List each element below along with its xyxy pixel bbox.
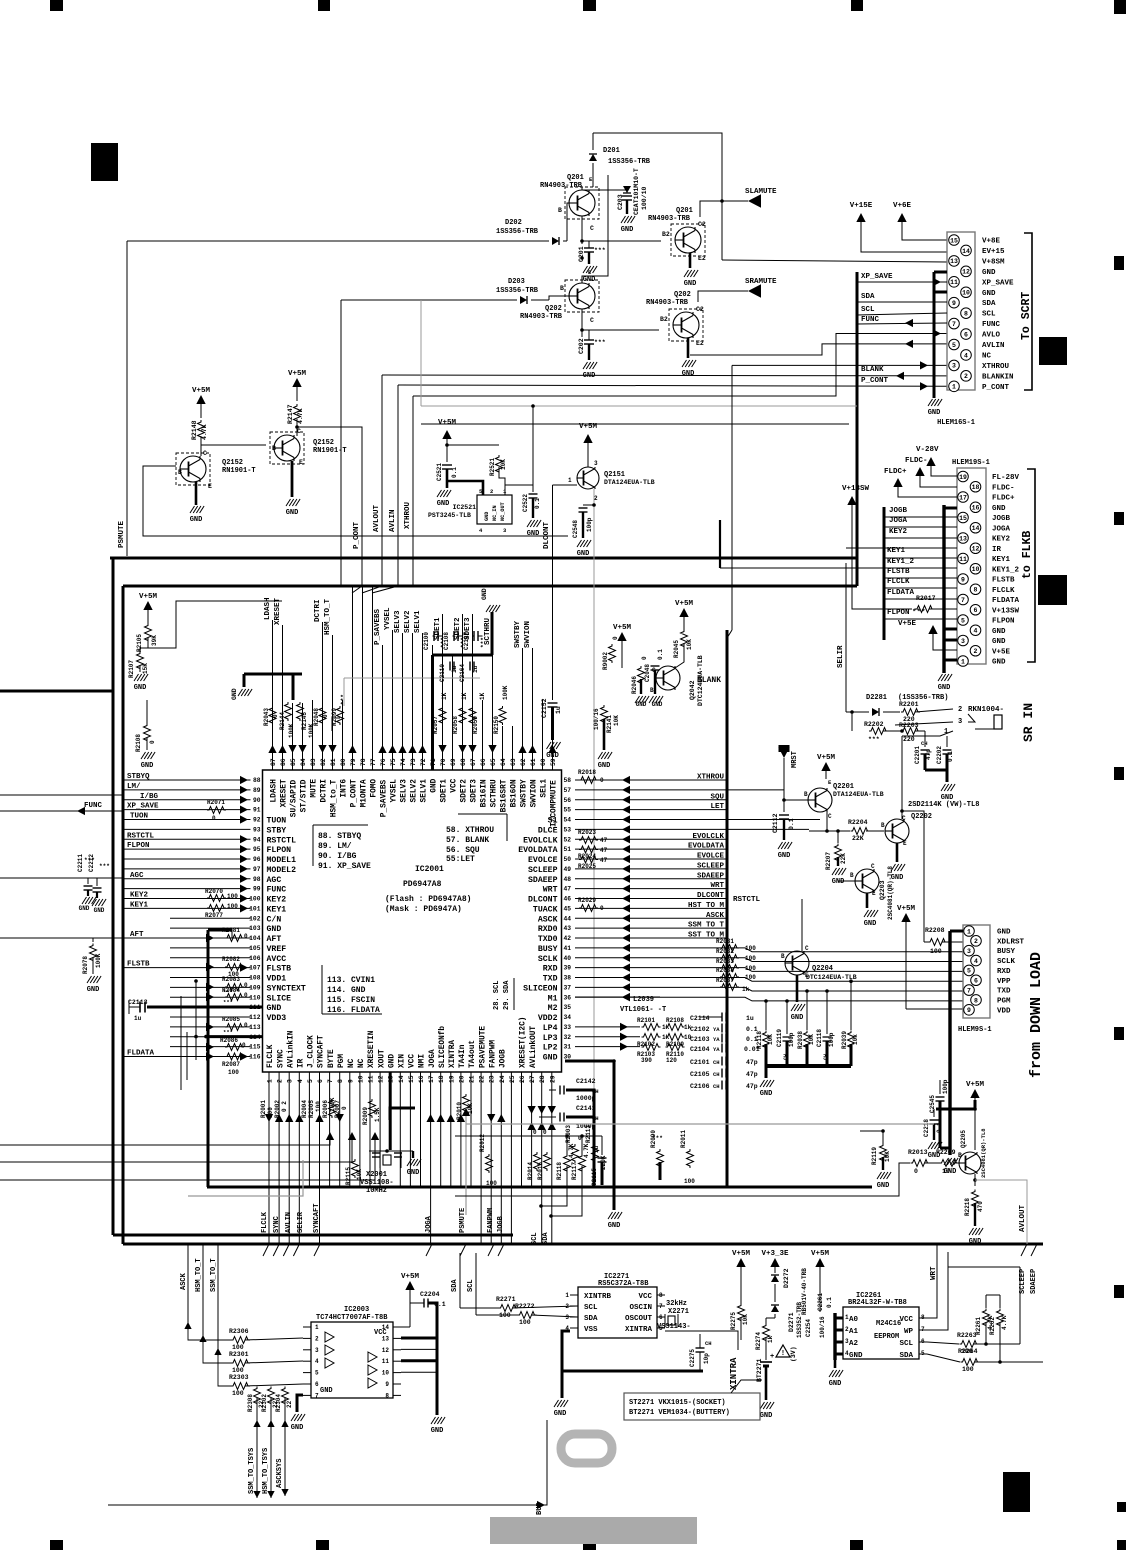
svg-text:KEY1: KEY1 bbox=[887, 547, 906, 555]
svg-text:13: 13 bbox=[959, 535, 967, 542]
svg-text:JOGA: JOGA bbox=[992, 525, 1011, 533]
transistor Q201 RN4903-TRB upper-left bbox=[569, 190, 595, 216]
wire bottom-left entries bbox=[0, 1136, 330, 1145]
svg-text:9: 9 bbox=[967, 1007, 971, 1014]
svg-text:C2164: C2164 bbox=[459, 664, 466, 682]
svg-text:DCTRI: DCTRI bbox=[314, 599, 322, 622]
svg-text:GND: GND bbox=[997, 929, 1011, 937]
wire pin 77 bbox=[372, 586, 374, 770]
svg-text:C: C bbox=[203, 450, 207, 457]
wire gray horizontal mid bbox=[466, 1123, 934, 1125]
svg-text:10K: 10K bbox=[742, 1314, 749, 1325]
wire main box left bbox=[122, 586, 125, 1244]
resistor R2108 0 bbox=[144, 724, 151, 743]
svg-text:C2105: C2105 bbox=[690, 1071, 710, 1078]
svg-text:4: 4 bbox=[974, 628, 978, 635]
svg-text:7: 7 bbox=[967, 987, 971, 994]
svg-text:V+6E: V+6E bbox=[893, 202, 912, 210]
svg-text:95: 95 bbox=[253, 846, 261, 853]
svg-text:R2150: R2150 bbox=[493, 716, 500, 734]
svg-text:RB501V-40-TRB: RB501V-40-TRB bbox=[801, 1268, 808, 1315]
svg-text:31: 31 bbox=[564, 1044, 572, 1051]
wire D203 vertical bbox=[340, 300, 342, 586]
ground IC2003 right bbox=[431, 1417, 436, 1424]
svg-text:55:LET: 55:LET bbox=[446, 855, 475, 864]
wire Q2205 emitter bbox=[974, 1174, 976, 1186]
resistor R2099 *** bbox=[337, 706, 344, 725]
svg-text:1: 1 bbox=[845, 1314, 849, 1321]
svg-text:98: 98 bbox=[253, 876, 261, 883]
svg-text:4: 4 bbox=[974, 958, 978, 965]
svg-text:0: 0 bbox=[244, 982, 248, 989]
net AVLOUT bundle bbox=[382, 374, 947, 377]
svg-text:FUNC: FUNC bbox=[84, 802, 103, 810]
ground Q201-2 emitter bbox=[689, 253, 692, 268]
svg-text:0.1: 0.1 bbox=[826, 1297, 833, 1308]
svg-text:GND: GND bbox=[94, 907, 105, 914]
svg-text:116: 116 bbox=[249, 1054, 261, 1061]
svg-text:***: *** bbox=[594, 247, 606, 254]
svg-text:99: 99 bbox=[253, 886, 261, 893]
svg-text:BS16ON: BS16ON bbox=[511, 779, 519, 807]
resistor R2207 22K bbox=[835, 844, 842, 863]
wire XTHROU to pin3 bbox=[732, 364, 947, 366]
svg-text:68: 68 bbox=[460, 758, 467, 766]
ground IC2003 left bbox=[297, 1395, 303, 1412]
svg-text:GND: GND bbox=[621, 226, 634, 234]
resistor R2039 10k filter bbox=[850, 981, 852, 1030]
resistor R2011 100 bbox=[687, 1149, 694, 1168]
svg-text:103: 103 bbox=[249, 925, 261, 932]
svg-text:DLCONT: DLCONT bbox=[543, 521, 551, 549]
svg-text:R2005: R2005 bbox=[308, 1100, 315, 1118]
ground X2001 bbox=[405, 1150, 413, 1152]
wire gray net top bbox=[344, 677, 480, 679]
svg-text:R2108: R2108 bbox=[666, 1017, 684, 1024]
wire Q2202 to R2208 bus bbox=[902, 811, 924, 942]
IC2003 pins left bbox=[303, 1326, 311, 1328]
svg-text:E2: E2 bbox=[696, 340, 704, 347]
svg-text:5: 5 bbox=[307, 1079, 314, 1083]
svg-text:C: C bbox=[828, 813, 832, 820]
svg-text:100: 100 bbox=[227, 893, 238, 900]
svg-text:C2101: C2101 bbox=[690, 1059, 710, 1066]
svg-text:0.1: 0.1 bbox=[788, 818, 795, 830]
svg-text:2: 2 bbox=[974, 648, 978, 655]
svg-text:ST/STID: ST/STID bbox=[301, 779, 309, 812]
resistor R2103 390 bbox=[642, 1044, 661, 1051]
svg-text:IC2521: IC2521 bbox=[453, 504, 477, 511]
svg-text:91: 91 bbox=[253, 807, 261, 814]
svg-text:DLCONT: DLCONT bbox=[528, 896, 558, 905]
svg-text:VDD2: VDD2 bbox=[538, 1014, 558, 1023]
svg-text:10: 10 bbox=[382, 1370, 390, 1377]
svg-text:R2003: R2003 bbox=[565, 1125, 572, 1143]
svg-text:100: 100 bbox=[930, 948, 942, 955]
wire pin 73 bbox=[412, 633, 414, 770]
svg-text:C2112: C2112 bbox=[772, 813, 779, 833]
svg-text:0: 0 bbox=[149, 740, 156, 744]
note pins 55-58 bbox=[506, 814, 508, 841]
pin 13 KEY2 bbox=[958, 533, 969, 544]
svg-text:14: 14 bbox=[962, 248, 970, 255]
svg-text:66: 66 bbox=[480, 758, 487, 766]
svg-text:1u: 1u bbox=[451, 665, 458, 673]
svg-text:D2281: D2281 bbox=[866, 694, 887, 702]
svg-text:***: *** bbox=[594, 339, 606, 346]
wire AGC outside bbox=[0, 877, 123, 879]
svg-text:3: 3 bbox=[952, 363, 956, 370]
capacitor C2107 *** bbox=[473, 631, 475, 641]
svg-text:GND: GND bbox=[760, 1090, 773, 1098]
svg-text:1u: 1u bbox=[555, 706, 562, 714]
svg-text:YVSEL: YVSEL bbox=[384, 607, 392, 630]
net DLCONT bbox=[553, 484, 578, 486]
svg-text:Q2151: Q2151 bbox=[604, 471, 625, 479]
pin 9 FLSTB bbox=[958, 574, 969, 585]
wire Q2201 collector down bbox=[826, 812, 828, 831]
svg-text:***: *** bbox=[652, 1135, 663, 1142]
logo capsule bbox=[561, 1434, 612, 1463]
svg-text:R2141: R2141 bbox=[606, 715, 613, 733]
wire pin 66 bbox=[482, 700, 484, 770]
svg-text:MUTE: MUTE bbox=[311, 779, 319, 798]
svg-text:22K: 22K bbox=[852, 835, 864, 842]
ground Q2204 bbox=[796, 975, 799, 1002]
svg-text:AVLinkIN: AVLinkIN bbox=[287, 1030, 295, 1068]
svg-text:6: 6 bbox=[317, 1079, 324, 1083]
svg-text:VCC: VCC bbox=[638, 1293, 652, 1301]
wire pin 85 bbox=[292, 703, 294, 770]
svg-text:9: 9 bbox=[961, 576, 965, 583]
svg-text:Q201: Q201 bbox=[567, 174, 584, 182]
wire WP bbox=[927, 1252, 948, 1330]
resistor R2109 10 bbox=[666, 1034, 685, 1041]
svg-text:7: 7 bbox=[921, 1326, 925, 1333]
svg-text:88: 88 bbox=[253, 777, 261, 784]
svg-text:CH: CH bbox=[921, 740, 928, 747]
svg-text:XP_SAVE: XP_SAVE bbox=[982, 279, 1014, 287]
svg-text:3: 3 bbox=[961, 638, 965, 645]
svg-text:2: 2 bbox=[958, 706, 962, 714]
resistor R2113 220K bbox=[592, 1144, 599, 1163]
svg-text:22K: 22K bbox=[840, 853, 847, 864]
resistor R2071 0 (pin91) bbox=[207, 807, 226, 814]
wire pullup to right bbox=[148, 601, 282, 648]
svg-text:100: 100 bbox=[227, 903, 238, 910]
pin 4 SCLK bbox=[971, 955, 982, 966]
svg-text:1K: 1K bbox=[441, 692, 448, 700]
svg-text:7: 7 bbox=[327, 1079, 334, 1083]
pin 4 NC bbox=[961, 350, 972, 361]
svg-text:CH: CH bbox=[705, 1340, 712, 1347]
transistor Q2205 2SC4081(QR)-TLB bbox=[959, 1152, 981, 1174]
svg-text:VTL1061- -T: VTL1061- -T bbox=[620, 1006, 666, 1014]
registration marks bbox=[50, 0, 63, 11]
svg-text:2: 2 bbox=[565, 1303, 569, 1310]
svg-text:1: 1 bbox=[565, 1292, 569, 1299]
svg-text:R2070: R2070 bbox=[205, 888, 223, 895]
svg-text:R2018: R2018 bbox=[578, 769, 596, 776]
svg-text:S1: S1 bbox=[548, 817, 558, 826]
svg-text:37: 37 bbox=[564, 984, 572, 991]
pin 1 P_CONT bbox=[949, 381, 960, 392]
svg-text:10k: 10k bbox=[852, 1034, 859, 1045]
svg-text:3: 3 bbox=[315, 1347, 319, 1354]
svg-text:V+5M: V+5M bbox=[192, 387, 211, 395]
wire SCRT GND bus bbox=[933, 272, 936, 398]
svg-text:GND: GND bbox=[829, 1380, 842, 1388]
capacitor C2048 0.1 bbox=[651, 665, 660, 667]
svg-text:TXD0: TXD0 bbox=[538, 935, 558, 944]
svg-text:EVOLDATA: EVOLDATA bbox=[518, 846, 557, 855]
svg-text:B: B bbox=[558, 207, 562, 214]
svg-text:2: 2 bbox=[277, 1079, 284, 1083]
svg-text:Q201: Q201 bbox=[676, 207, 693, 215]
ground for Q2152 bbox=[195, 482, 198, 505]
svg-text:GND: GND bbox=[992, 659, 1006, 667]
svg-text:39: 39 bbox=[564, 965, 572, 972]
svg-text:R2078: R2078 bbox=[82, 956, 89, 974]
ground top GND bus bbox=[486, 605, 491, 612]
ground RTC bbox=[554, 1400, 559, 1407]
svg-text:100: 100 bbox=[249, 896, 261, 903]
svg-text:YVSEL: YVSEL bbox=[391, 779, 399, 803]
ground C2548 bbox=[577, 540, 582, 547]
svg-text:SELV3: SELV3 bbox=[394, 610, 402, 633]
svg-text:R2209: R2209 bbox=[936, 1149, 956, 1156]
svg-text:RSTCTL: RSTCTL bbox=[733, 896, 761, 904]
svg-text:SLAMUTE: SLAMUTE bbox=[745, 188, 777, 196]
note pins 113-116 bbox=[321, 965, 323, 1014]
svg-text:GND: GND bbox=[598, 762, 611, 770]
svg-text:***: *** bbox=[223, 989, 233, 996]
resistor R2107 15K bbox=[137, 652, 144, 671]
svg-text:VPP: VPP bbox=[997, 978, 1011, 986]
svg-text:SU/SAPID: SU/SAPID bbox=[291, 779, 299, 817]
svg-text:470: 470 bbox=[977, 1201, 984, 1212]
svg-text:R2082: R2082 bbox=[222, 956, 240, 963]
transistor Q2152 RN1901-T bbox=[180, 456, 206, 482]
capacitor C202 bbox=[581, 309, 583, 337]
wire mid band extra bbox=[421, 423, 849, 425]
svg-text:V+8E: V+8E bbox=[982, 238, 1001, 246]
pin 15 V+8E bbox=[949, 235, 960, 246]
svg-text:R2038: R2038 bbox=[716, 967, 734, 974]
svg-text:13: 13 bbox=[382, 1335, 390, 1342]
ground Q2203 bbox=[866, 893, 869, 908]
pin 17 FLDC+ bbox=[958, 492, 969, 503]
svg-text:V+5M: V+5M bbox=[438, 419, 457, 427]
svg-text:2: 2 bbox=[845, 1326, 849, 1333]
wire bottom thin border bbox=[540, 1419, 547, 1421]
svg-text:Q2201: Q2201 bbox=[833, 783, 854, 791]
svg-text:FUNC: FUNC bbox=[861, 316, 880, 324]
svg-text:12: 12 bbox=[378, 1075, 385, 1083]
svg-text:32: 32 bbox=[564, 1034, 572, 1041]
svg-text:BS16SRT: BS16SRT bbox=[501, 779, 509, 812]
svg-text:FLDC-: FLDC- bbox=[992, 484, 1015, 492]
svg-text:***: *** bbox=[868, 736, 880, 743]
svg-text:HSM_TO_T: HSM_TO_T bbox=[195, 1258, 203, 1292]
svg-text:90: 90 bbox=[253, 797, 261, 804]
svg-text:65: 65 bbox=[490, 758, 497, 766]
svg-text:108: 108 bbox=[249, 975, 261, 982]
arrows under bottom pins bbox=[265, 1114, 273, 1122]
svg-text:BLANK: BLANK bbox=[697, 676, 721, 685]
resistor R2261 4.7K bbox=[983, 1309, 990, 1328]
svg-text:***: *** bbox=[912, 609, 926, 617]
svg-text:V+5M: V+5M bbox=[401, 1273, 420, 1281]
svg-text:HSM_TO_T: HSM_TO_T bbox=[324, 598, 332, 635]
svg-text:SLICE: SLICE bbox=[267, 994, 292, 1003]
net IR wire bbox=[846, 547, 957, 549]
svg-text:2: 2 bbox=[315, 1335, 319, 1342]
wire pin 71 bbox=[432, 645, 434, 770]
pin 6 V+13SW bbox=[970, 604, 981, 615]
svg-text:R2108: R2108 bbox=[135, 734, 142, 752]
wire jog P_CONT into box bbox=[352, 586, 362, 593]
svg-text:1u: 1u bbox=[134, 1015, 142, 1022]
svg-text:24: 24 bbox=[499, 1075, 506, 1083]
ground eeprom bus bbox=[829, 1370, 834, 1377]
svg-text:67: 67 bbox=[470, 758, 477, 766]
svg-text:R2262: R2262 bbox=[989, 1317, 996, 1335]
svg-text:11: 11 bbox=[959, 556, 967, 563]
wire Q2162 collector to P_CONT bbox=[295, 425, 299, 429]
svg-text:8: 8 bbox=[974, 997, 978, 1004]
svg-text:2SD2114K (VW)-TL8: 2SD2114K (VW)-TL8 bbox=[908, 801, 979, 809]
svg-text:***: *** bbox=[223, 999, 233, 1006]
wire pin 59 bbox=[552, 726, 554, 770]
svg-text:KEY2: KEY2 bbox=[267, 896, 287, 905]
transistor Q202 RN4903-TRB lower-left bbox=[569, 283, 595, 309]
svg-text:82: 82 bbox=[320, 758, 327, 766]
svg-text:C2521: C2521 bbox=[436, 463, 443, 481]
svg-text:12: 12 bbox=[382, 1347, 390, 1354]
svg-text:40: 40 bbox=[564, 955, 572, 962]
wire IC2003 right thick bbox=[401, 1337, 437, 1340]
wire MRST to base bbox=[784, 799, 808, 801]
svg-text:100: 100 bbox=[684, 1178, 695, 1185]
svg-text:GND: GND bbox=[636, 701, 647, 708]
svg-text:100K: 100K bbox=[288, 723, 295, 738]
svg-text:100: 100 bbox=[962, 1366, 974, 1373]
svg-text:2: 2 bbox=[974, 938, 978, 945]
wire pin 70 bbox=[442, 614, 444, 770]
svg-text:KEY2: KEY2 bbox=[889, 528, 908, 536]
svg-text:R2207: R2207 bbox=[825, 852, 832, 870]
svg-text:C: C bbox=[805, 945, 809, 952]
svg-text:C2: C2 bbox=[698, 221, 706, 228]
wire left aux verticals bbox=[195, 981, 197, 1060]
wire gray SYNCAFT bbox=[188, 1160, 303, 1196]
wire IC2521 feed vertical bbox=[532, 406, 534, 485]
svg-text:R2046: R2046 bbox=[631, 676, 638, 694]
svg-text:R2107: R2107 bbox=[128, 660, 135, 678]
capacitor C2110 1u bbox=[449, 662, 451, 671]
svg-text:GND: GND bbox=[437, 500, 450, 508]
wire pin 84 bbox=[302, 703, 304, 770]
svg-text:R2202: R2202 bbox=[864, 721, 884, 728]
svg-text:R2007: R2007 bbox=[334, 1100, 341, 1118]
svg-text:3: 3 bbox=[958, 718, 962, 726]
capacitor C2202 0.1 bbox=[946, 736, 948, 747]
capacitor C201 bbox=[581, 216, 583, 244]
svg-text:C202: C202 bbox=[578, 338, 585, 354]
svg-text:27: 27 bbox=[529, 1075, 536, 1083]
pin 5 RXD bbox=[964, 965, 975, 976]
svg-text:R2264: R2264 bbox=[958, 1348, 978, 1355]
svg-text:C2103: C2103 bbox=[690, 1036, 710, 1043]
svg-text:R2083: R2083 bbox=[222, 976, 240, 983]
svg-text:YA: YA bbox=[713, 1046, 720, 1053]
svg-text:WRT: WRT bbox=[543, 886, 558, 895]
svg-text:AVLO: AVLO bbox=[982, 332, 1001, 340]
svg-text:0: 0 bbox=[242, 1042, 246, 1049]
svg-text:R2208: R2208 bbox=[925, 927, 945, 934]
svg-text:R2301: R2301 bbox=[229, 1351, 249, 1358]
net XTHROU bundle bbox=[413, 334, 947, 397]
svg-text:C2104: C2104 bbox=[690, 1046, 710, 1053]
svg-text:4: 4 bbox=[964, 352, 968, 359]
capacitor C2152 1u bbox=[552, 485, 554, 700]
resistor R2115 10K bbox=[352, 1159, 359, 1178]
svg-text:PSMUTE: PSMUTE bbox=[118, 520, 126, 548]
svg-text:GND: GND bbox=[849, 1352, 863, 1360]
capacitor C2164 1u bbox=[469, 662, 471, 671]
wire rows 93 96 97 99 102 103 105 106 108-115 bbox=[123, 828, 251, 830]
svg-text:M2: M2 bbox=[548, 1004, 558, 1013]
svg-text:SELV3: SELV3 bbox=[401, 779, 409, 803]
ground R2141 bbox=[598, 752, 603, 759]
ground blank pair bbox=[635, 696, 640, 703]
transistor Q201 RN4903-TRB right (mute sw) bbox=[675, 227, 701, 253]
svg-text:6: 6 bbox=[974, 978, 978, 985]
svg-text:113. CVIN1: 113. CVIN1 bbox=[327, 976, 375, 985]
svg-text:HLEM19S-1: HLEM19S-1 bbox=[952, 459, 990, 467]
svg-text:8: 8 bbox=[964, 310, 968, 317]
pin 5 FLPON bbox=[958, 615, 969, 626]
svg-text:28: 28 bbox=[539, 1075, 546, 1083]
svg-text:0: 0 bbox=[543, 1129, 547, 1136]
svg-text:SCL: SCL bbox=[467, 1279, 475, 1292]
svg-text:GND: GND bbox=[543, 1054, 558, 1063]
pin 12 IR bbox=[970, 543, 981, 554]
svg-text:28. SCL: 28. SCL bbox=[493, 981, 501, 1010]
svg-text:XRESETIN: XRESETIN bbox=[368, 1030, 376, 1068]
svg-text:83: 83 bbox=[310, 758, 317, 766]
transistor Q2201 DTA124EUA-TLB bbox=[808, 788, 832, 812]
svg-text:VSS1108-: VSS1108- bbox=[360, 1179, 394, 1187]
svg-text:OSCIN: OSCIN bbox=[629, 1304, 652, 1312]
svg-text:ASCK: ASCK bbox=[180, 1272, 188, 1290]
svg-text:VSS1143-: VSS1143- bbox=[657, 1323, 691, 1331]
svg-text:16: 16 bbox=[972, 505, 980, 512]
resistor R2145 100K bbox=[297, 702, 304, 721]
svg-text:A1: A1 bbox=[849, 1328, 859, 1336]
svg-text:8: 8 bbox=[337, 1079, 344, 1083]
svg-text:GND: GND bbox=[527, 530, 540, 538]
svg-text:45: 45 bbox=[564, 905, 572, 912]
wire pin 74 bbox=[402, 633, 404, 770]
transistor Q2162 RN1901-T bbox=[274, 435, 300, 461]
svg-text:100: 100 bbox=[745, 965, 756, 972]
svg-text:LP4: LP4 bbox=[543, 1024, 558, 1033]
svg-text:M1ONTA: M1ONTA bbox=[361, 779, 369, 807]
pin 5 AVLIN bbox=[949, 339, 960, 350]
svg-text:GND: GND bbox=[291, 1424, 304, 1432]
